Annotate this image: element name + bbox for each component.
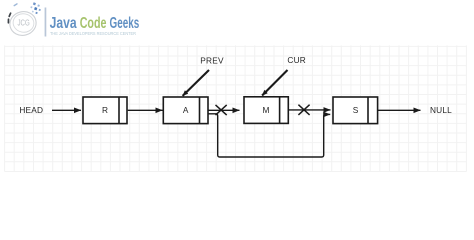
list node R — [83, 97, 127, 124]
logo separator bar — [45, 8, 47, 37]
svg-text:THE JAVA DEVELOPERS RESOURCE C: THE JAVA DEVELOPERS RESOURCE CENTER — [50, 31, 136, 36]
wire A to M (broken) — [208, 109, 240, 111]
wire M to S (broken) — [288, 109, 330, 111]
logo icon dark dashes — [8, 13, 10, 23]
svg-text:CUR: CUR — [287, 55, 306, 65]
svg-text:JCG: JCG — [18, 19, 30, 28]
svg-text:M: M — [263, 105, 270, 115]
pointer PREV to node A — [183, 70, 209, 96]
list node S — [333, 97, 378, 124]
svg-text:A: A — [183, 105, 189, 115]
wire R to A — [128, 109, 163, 111]
svg-text:Geeks: Geeks — [110, 15, 140, 32]
svg-text:PREV: PREV — [200, 56, 224, 66]
svg-text:S: S — [353, 105, 359, 115]
break mark X1 — [216, 105, 227, 115]
svg-text:Java: Java — [50, 15, 77, 32]
list node A — [163, 97, 208, 124]
list node M — [244, 97, 288, 124]
svg-text:HEAD: HEAD — [19, 105, 43, 115]
svg-text:NULL: NULL — [430, 105, 452, 115]
logo icon blue dots — [30, 2, 41, 14]
svg-text:Code: Code — [80, 15, 107, 32]
wire S to NULL — [378, 109, 421, 111]
wire HEAD to R — [52, 109, 81, 111]
wire A to S (reroute below) — [208, 114, 330, 157]
pointer CUR to node M — [262, 70, 287, 96]
svg-text:R: R — [102, 105, 108, 115]
logo icon circle — [7, 9, 38, 38]
logo icon light blue dash — [14, 4, 17, 6]
break mark X2 — [298, 105, 309, 115]
